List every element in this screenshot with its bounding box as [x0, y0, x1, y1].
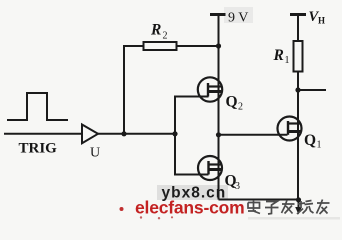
svg-text:3: 3	[235, 181, 240, 192]
svg-text:TRIG: TRIG	[19, 141, 58, 157]
svg-text:Q: Q	[304, 132, 316, 149]
svg-text:1: 1	[285, 55, 290, 66]
svg-text:Q: Q	[226, 94, 238, 111]
svg-text:elecfans-com: elecfans-com	[135, 198, 244, 218]
svg-text:2: 2	[238, 102, 243, 113]
svg-text:R: R	[273, 47, 284, 64]
svg-text:U: U	[90, 146, 100, 161]
svg-text:2: 2	[163, 31, 168, 42]
svg-text:R: R	[150, 22, 161, 39]
svg-text:9 V: 9 V	[228, 11, 248, 26]
svg-text:1: 1	[317, 140, 322, 151]
svg-text:H: H	[318, 16, 325, 26]
